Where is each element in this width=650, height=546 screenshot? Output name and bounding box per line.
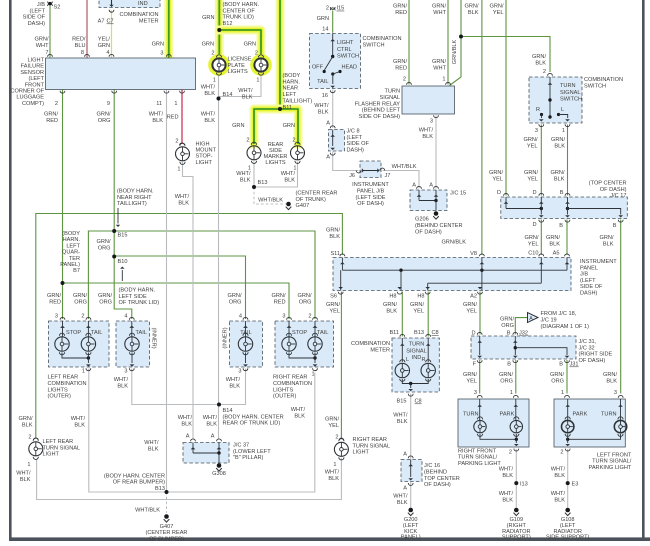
svg-text:YEL: YEL bbox=[492, 176, 503, 182]
wire GRN/ORG from triangle A to J/C 31 pin B bbox=[515, 318, 527, 335]
svg-text:(DIAGRAM 1 OF 1): (DIAGRAM 1 OF 1) bbox=[541, 324, 590, 330]
svg-text:GRN: GRN bbox=[244, 42, 256, 48]
svg-text:YEL: YEL bbox=[493, 10, 504, 16]
svg-text:A: A bbox=[429, 183, 433, 189]
svg-text:PANEL): PANEL) bbox=[60, 262, 80, 268]
svg-text:BLK: BLK bbox=[74, 422, 85, 428]
svg-text:YEL: YEL bbox=[329, 308, 340, 314]
combination meter IND box at top bbox=[99, 0, 160, 8]
svg-text:BLU: BLU bbox=[75, 43, 86, 49]
wire GRN highlighted to license plate lights via B12 bbox=[215, 0, 224, 56]
svg-text:BLK: BLK bbox=[22, 422, 33, 428]
svg-text:GRN/: GRN/ bbox=[432, 4, 446, 10]
svg-text:GRN/: GRN/ bbox=[524, 170, 538, 176]
svg-text:TOP CENTER: TOP CENTER bbox=[424, 476, 460, 482]
svg-text:ORG: ORG bbox=[501, 323, 514, 329]
svg-text:YEL: YEL bbox=[527, 143, 538, 149]
svg-text:E3: E3 bbox=[572, 481, 579, 487]
svg-text:1: 1 bbox=[333, 462, 336, 468]
svg-text:TER: TER bbox=[69, 256, 80, 262]
svg-text:IND: IND bbox=[412, 355, 422, 361]
svg-text:FAILURE: FAILURE bbox=[21, 64, 45, 70]
junction B12 bbox=[217, 28, 221, 32]
svg-text:WHT/: WHT/ bbox=[144, 440, 159, 446]
svg-text:LUGGAGE: LUGGAGE bbox=[16, 95, 44, 101]
svg-text:GRN/: GRN/ bbox=[603, 372, 617, 378]
svg-text:WHT: WHT bbox=[433, 65, 446, 71]
svg-text:WHT/: WHT/ bbox=[114, 377, 129, 383]
svg-text:BLK: BLK bbox=[554, 143, 565, 149]
svg-text:B14: B14 bbox=[223, 408, 233, 414]
svg-text:2: 2 bbox=[175, 139, 178, 145]
svg-text:A: A bbox=[326, 121, 330, 127]
svg-text:NEAR RIGHT: NEAR RIGHT bbox=[117, 195, 152, 201]
svg-text:3: 3 bbox=[282, 314, 285, 320]
wire GRN/BLK V8 to A2 through instrument panel J/B bbox=[481, 0, 483, 255]
svg-text:TURN SIGNAL: TURN SIGNAL bbox=[353, 443, 391, 449]
svg-text:METER: METER bbox=[370, 348, 390, 354]
svg-text:HARN.: HARN. bbox=[283, 79, 301, 85]
svg-text:ORG: ORG bbox=[74, 299, 87, 305]
svg-text:WHT/: WHT/ bbox=[201, 112, 216, 118]
svg-text:OF TRUNK): OF TRUNK) bbox=[296, 197, 326, 203]
svg-text:B15: B15 bbox=[118, 233, 128, 239]
svg-text:RIGHT REAR: RIGHT REAR bbox=[353, 437, 387, 443]
svg-text:A: A bbox=[529, 316, 533, 322]
svg-text:TAIL: TAIL bbox=[136, 330, 147, 336]
svg-text:(TOP CENTER: (TOP CENTER bbox=[589, 181, 627, 187]
svg-text:WHT: WHT bbox=[433, 10, 446, 16]
svg-text:B11: B11 bbox=[389, 330, 399, 336]
svg-text:YEL: YEL bbox=[466, 308, 477, 314]
svg-text:GRN/: GRN/ bbox=[35, 37, 49, 43]
svg-text:PLATE: PLATE bbox=[228, 63, 246, 69]
svg-text:SIDE SUPPORT): SIDE SUPPORT) bbox=[546, 535, 590, 541]
svg-text:SWITCH: SWITCH bbox=[363, 43, 385, 49]
wire WHT/BLK high mount stop light ground to J/C 37 pin A bbox=[183, 162, 194, 439]
svg-text:GRN: GRN bbox=[283, 123, 295, 129]
svg-text:C8: C8 bbox=[415, 399, 422, 405]
svg-text:J/C 31,: J/C 31, bbox=[579, 339, 597, 345]
wire GRN/YEL H8 to turn signal ind B13 bbox=[427, 292, 429, 337]
svg-text:TURN SIGNAL/: TURN SIGNAL/ bbox=[592, 459, 632, 465]
svg-text:A2: A2 bbox=[470, 294, 477, 300]
svg-text:B13: B13 bbox=[414, 330, 424, 336]
left rear combination lights outer box bbox=[49, 321, 110, 367]
callout BODY HARN LEFT SIDE OF TRUNK LID arrow to B10 bbox=[121, 270, 123, 281]
wire rear side marker grounds bbox=[254, 162, 298, 188]
svg-text:TAIL: TAIL bbox=[317, 79, 328, 85]
bulb TAIL inner right bbox=[238, 337, 252, 351]
svg-text:OF DASH): OF DASH) bbox=[600, 187, 627, 193]
svg-text:B7: B7 bbox=[73, 268, 80, 274]
svg-text:SUPPORT): SUPPORT) bbox=[502, 535, 531, 541]
svg-text:PARKING LIGHT: PARKING LIGHT bbox=[458, 461, 501, 467]
svg-text:RED: RED bbox=[395, 10, 407, 16]
svg-text:PANEL: PANEL bbox=[580, 265, 598, 271]
combination switch box with light ctrl switch bbox=[310, 34, 361, 89]
svg-text:S2: S2 bbox=[54, 5, 61, 11]
svg-text:(BODY HARN.: (BODY HARN. bbox=[223, 2, 260, 8]
svg-text:BLK: BLK bbox=[603, 241, 614, 247]
svg-text:TURN: TURN bbox=[409, 342, 425, 348]
svg-text:STOP: STOP bbox=[292, 330, 307, 336]
svg-text:LEFT REAR: LEFT REAR bbox=[43, 439, 74, 445]
dashed link marker splice to G407 bbox=[254, 187, 286, 204]
svg-text:GRN/: GRN/ bbox=[432, 59, 446, 65]
svg-text:CENTER OF: CENTER OF bbox=[223, 8, 256, 14]
svg-text:SWITCH: SWITCH bbox=[560, 97, 582, 103]
svg-text:A: A bbox=[326, 155, 330, 161]
svg-text:SIDE OF: SIDE OF bbox=[347, 141, 370, 147]
svg-text:BLK: BLK bbox=[606, 378, 617, 384]
svg-text:OF DASH): OF DASH) bbox=[579, 358, 606, 364]
svg-text:LIGHTS: LIGHTS bbox=[228, 69, 248, 75]
svg-text:B13: B13 bbox=[258, 180, 268, 186]
svg-text:1: 1 bbox=[561, 390, 564, 396]
svg-text:BLK: BLK bbox=[204, 91, 215, 97]
svg-text:BLK: BLK bbox=[554, 497, 565, 503]
svg-text:BLK: BLK bbox=[397, 500, 408, 506]
internal wiring left front bbox=[568, 434, 621, 439]
svg-text:OF DASH): OF DASH) bbox=[357, 201, 384, 207]
svg-text:B: B bbox=[613, 223, 617, 229]
junction box J/C 31 J/C 32 bbox=[471, 336, 576, 359]
svg-text:YEL: YEL bbox=[527, 176, 538, 182]
svg-text:LEFT: LEFT bbox=[283, 92, 297, 98]
wire WHT/BLK left outer combination pin 1 to ground bus bbox=[89, 369, 315, 493]
svg-text:B12: B12 bbox=[223, 21, 233, 27]
svg-text:G407: G407 bbox=[160, 524, 174, 530]
junction box J/C 15 bbox=[410, 190, 447, 211]
svg-text:H8: H8 bbox=[389, 294, 396, 300]
svg-text:RED: RED bbox=[395, 65, 407, 71]
wire GRN/BLK J/C 17 pin B to left front turn pin 3 bbox=[620, 220, 622, 394]
svg-text:B: B bbox=[507, 362, 511, 368]
svg-text:2: 2 bbox=[292, 138, 295, 144]
svg-text:2: 2 bbox=[509, 450, 512, 456]
svg-text:J/C 16: J/C 16 bbox=[424, 463, 440, 469]
wire WHT/BLK license plate lights ground to B14 to J/C 37 pin A bbox=[218, 75, 220, 439]
svg-text:(RIGHT SIDE: (RIGHT SIDE bbox=[579, 352, 613, 358]
svg-text:BLK: BLK bbox=[386, 308, 397, 314]
svg-text:H8: H8 bbox=[417, 294, 424, 300]
svg-text:WHT/: WHT/ bbox=[175, 194, 190, 200]
svg-text:RED: RED bbox=[46, 118, 58, 124]
svg-text:TAILLIGHT): TAILLIGHT) bbox=[117, 201, 147, 207]
svg-text:WHT/: WHT/ bbox=[499, 467, 514, 473]
svg-text:(BODY HARN. CENTER: (BODY HARN. CENTER bbox=[223, 414, 284, 420]
svg-text:ORG: ORG bbox=[229, 299, 242, 305]
svg-text:A: A bbox=[412, 183, 416, 189]
svg-text:WHT/: WHT/ bbox=[236, 171, 251, 177]
svg-text:IND: IND bbox=[138, 1, 148, 7]
svg-text:GRN/: GRN/ bbox=[463, 372, 477, 378]
svg-text:GRN/: GRN/ bbox=[524, 137, 538, 143]
svg-text:OF DASH): OF DASH) bbox=[424, 482, 451, 488]
light ctrl switch contacts bbox=[330, 39, 335, 41]
svg-text:LEFT REAR: LEFT REAR bbox=[48, 375, 79, 381]
svg-text:(LEFT: (LEFT bbox=[580, 278, 596, 284]
svg-text:WHT/: WHT/ bbox=[16, 471, 31, 477]
svg-text:ORG: ORG bbox=[551, 378, 564, 384]
svg-text:MOUNT: MOUNT bbox=[196, 148, 217, 154]
wire B15 branch GRN/ORG to left tail pin 2 and right tail pin 2 bbox=[88, 231, 315, 319]
svg-text:G206: G206 bbox=[415, 217, 429, 223]
svg-text:LICENSE: LICENSE bbox=[228, 57, 252, 63]
inner right tail light box bbox=[230, 321, 263, 367]
svg-text:GRN: GRN bbox=[202, 42, 214, 48]
svg-text:1: 1 bbox=[562, 128, 565, 134]
svg-text:PANEL J/B: PANEL J/B bbox=[357, 188, 385, 194]
wire GRN/YEL J/C 17 to C10 bbox=[540, 220, 542, 256]
svg-text:TURN: TURN bbox=[560, 83, 576, 89]
bulb PARK right front bbox=[510, 420, 522, 432]
svg-text:PARKING LIGHT: PARKING LIGHT bbox=[589, 465, 632, 471]
wire WHT/BLK inner tails ground bus at B14 bbox=[132, 369, 246, 405]
wire GRN highlighted to rear side marker lights via B11 bbox=[276, 0, 285, 109]
svg-text:J31: J31 bbox=[570, 362, 579, 368]
svg-text:LIGHT: LIGHT bbox=[43, 452, 60, 458]
svg-text:1: 1 bbox=[82, 369, 85, 375]
svg-text:ORG: ORG bbox=[98, 245, 111, 251]
svg-text:GRN/: GRN/ bbox=[463, 302, 477, 308]
svg-text:3: 3 bbox=[430, 119, 433, 125]
svg-text:YEL: YEL bbox=[413, 308, 424, 314]
svg-text:STOP: STOP bbox=[66, 330, 81, 336]
svg-text:D: D bbox=[532, 222, 536, 228]
bulb TURN left front bbox=[614, 420, 626, 432]
svg-text:FRONT: FRONT bbox=[25, 82, 45, 88]
svg-text:I15: I15 bbox=[337, 6, 345, 12]
svg-text:GRN/: GRN/ bbox=[98, 293, 112, 299]
svg-text:TURN: TURN bbox=[384, 89, 400, 95]
svg-text:BLK: BLK bbox=[329, 234, 340, 240]
svg-text:FROM J/C 18,: FROM J/C 18, bbox=[541, 311, 577, 317]
svg-text:1: 1 bbox=[213, 78, 216, 84]
internal wiring right front bbox=[480, 434, 516, 439]
svg-text:HARN.: HARN. bbox=[63, 237, 81, 243]
svg-text:GRN/: GRN/ bbox=[546, 235, 560, 241]
svg-text:GRN/: GRN/ bbox=[325, 417, 339, 423]
wire WHT/BLK right front light ground to G109 bbox=[515, 449, 517, 508]
svg-text:3: 3 bbox=[614, 390, 617, 396]
wire WHT/BLK turn signal grounds bus bbox=[37, 458, 342, 500]
svg-text:METER: METER bbox=[139, 19, 159, 25]
svg-text:3: 3 bbox=[238, 369, 241, 375]
svg-text:J/C 15: J/C 15 bbox=[450, 191, 466, 197]
svg-text:INSTRUMENT: INSTRUMENT bbox=[352, 182, 389, 188]
svg-text:GRN/: GRN/ bbox=[228, 293, 242, 299]
svg-text:J/C 19: J/C 19 bbox=[541, 317, 557, 323]
svg-text:3: 3 bbox=[124, 369, 127, 375]
svg-text:GRN/: GRN/ bbox=[97, 239, 111, 245]
junction box instrument panel J/B J6 J7 bbox=[360, 161, 381, 178]
svg-text:WHT/: WHT/ bbox=[203, 415, 218, 421]
svg-text:COMBINATION: COMBINATION bbox=[351, 341, 390, 347]
svg-text:BLK: BLK bbox=[554, 473, 565, 479]
wire B10 branch GRN/ORG to inner-right tail pin 4 bbox=[114, 256, 245, 319]
svg-text:B: B bbox=[560, 190, 564, 196]
wire GRN/RED sensor pin 2 to B7 to left stop pin 3 bbox=[62, 90, 64, 320]
svg-text:GRN/: GRN/ bbox=[465, 4, 479, 10]
svg-text:GRN/: GRN/ bbox=[551, 137, 565, 143]
svg-text:TURN: TURN bbox=[463, 412, 479, 418]
page border right bar bbox=[642, 0, 645, 541]
svg-text:DASH): DASH) bbox=[347, 147, 365, 153]
dashed link B13 to G407 bbox=[166, 492, 168, 513]
svg-text:C10: C10 bbox=[528, 251, 538, 257]
svg-text:BLK: BLK bbox=[152, 118, 163, 124]
svg-text:BLK: BLK bbox=[328, 476, 339, 482]
svg-text:3: 3 bbox=[535, 128, 538, 134]
connector S2 at top bbox=[48, 2, 53, 4]
svg-text:SIDE OF: SIDE OF bbox=[580, 284, 603, 290]
svg-text:GRN/: GRN/ bbox=[393, 59, 407, 65]
svg-text:2: 2 bbox=[560, 450, 563, 456]
svg-text:TAILLIGHT): TAILLIGHT) bbox=[283, 98, 313, 104]
ground G206 bbox=[434, 211, 439, 216]
svg-text:2: 2 bbox=[335, 435, 338, 441]
svg-text:GRN/: GRN/ bbox=[499, 372, 513, 378]
svg-text:G308: G308 bbox=[212, 471, 226, 477]
svg-text:GRN: GRN bbox=[98, 43, 110, 49]
junction B13 marker splice bbox=[252, 185, 256, 189]
wire GRN/WHT to flasher relay pin 1 bbox=[447, 0, 449, 85]
wire GRN/RED to flasher relay pin 2 bbox=[408, 0, 410, 85]
svg-text:PARK: PARK bbox=[500, 412, 515, 418]
svg-text:TURN SIGNAL: TURN SIGNAL bbox=[43, 445, 81, 451]
svg-text:LIGHTS: LIGHTS bbox=[48, 387, 68, 393]
svg-text:R: R bbox=[536, 107, 540, 113]
svg-text:A: A bbox=[403, 486, 407, 492]
svg-text:(LEFT: (LEFT bbox=[347, 135, 363, 141]
svg-text:CORNER OF: CORNER OF bbox=[10, 89, 44, 95]
junction B10 bbox=[112, 255, 116, 259]
wire GRN/ORG J/C 31 pin B to left front park pin 1 bbox=[566, 360, 568, 394]
svg-text:(OUTER): (OUTER) bbox=[273, 394, 296, 400]
svg-text:2: 2 bbox=[246, 138, 249, 144]
rear side marker bulb left bbox=[247, 146, 261, 160]
svg-text:J6: J6 bbox=[349, 173, 355, 179]
svg-text:RED: RED bbox=[49, 299, 61, 305]
svg-text:BLK: BLK bbox=[549, 241, 560, 247]
wire GRN/YEL S6 to right rear turn signal light bbox=[340, 292, 342, 440]
bulb L turn signal ind bbox=[395, 363, 409, 377]
instrument panel J/B internal wiring bbox=[341, 258, 343, 271]
connector I15 bbox=[330, 7, 335, 9]
svg-text:B13: B13 bbox=[155, 486, 165, 492]
svg-text:G407: G407 bbox=[296, 203, 310, 209]
wire WHT/BLK comb switch pin 16 to J/C 8 bbox=[332, 90, 334, 129]
svg-text:WHT/: WHT/ bbox=[238, 88, 253, 94]
svg-text:A: A bbox=[211, 434, 215, 440]
svg-text:GRN: GRN bbox=[317, 16, 329, 22]
svg-text:SENSOR: SENSOR bbox=[20, 70, 44, 76]
wire WHT/BLK J/C 16 to G200 bbox=[410, 482, 412, 509]
svg-text:GRN: GRN bbox=[202, 15, 214, 21]
junction B14 bbox=[217, 403, 221, 407]
svg-text:1: 1 bbox=[174, 101, 177, 107]
svg-text:4: 4 bbox=[106, 50, 109, 56]
svg-text:BLK: BLK bbox=[148, 446, 159, 452]
svg-text:1: 1 bbox=[510, 390, 513, 396]
svg-text:GRN/: GRN/ bbox=[73, 293, 87, 299]
svg-text:BLK: BLK bbox=[117, 383, 128, 389]
license plate light bulb 1 highlighted bbox=[210, 56, 227, 73]
svg-text:GRN/: GRN/ bbox=[97, 112, 111, 118]
svg-text:BLK: BLK bbox=[468, 10, 479, 16]
svg-text:L: L bbox=[561, 107, 564, 113]
ground G108 bbox=[565, 508, 570, 513]
svg-text:GRN/: GRN/ bbox=[272, 293, 286, 299]
svg-text:B10: B10 bbox=[118, 259, 128, 265]
svg-text:4: 4 bbox=[239, 314, 242, 320]
svg-text:BLK: BLK bbox=[422, 134, 433, 140]
instrument panel J/B box bbox=[333, 258, 571, 291]
left front turn signal parking light box bbox=[554, 399, 625, 447]
wire WHT/BLK turn signal ind B15 to J/C 16 bbox=[410, 394, 412, 460]
svg-text:2: 2 bbox=[81, 314, 84, 320]
svg-text:I13: I13 bbox=[520, 481, 528, 487]
wire YEL/GRN combination meter A7/C7 to sensor pin 4 bbox=[111, 11, 113, 58]
svg-text:2: 2 bbox=[326, 6, 329, 12]
svg-text:DASH): DASH) bbox=[580, 291, 598, 297]
svg-text:YEL: YEL bbox=[328, 423, 339, 429]
svg-text:ORG: ORG bbox=[98, 118, 111, 124]
svg-text:3: 3 bbox=[55, 314, 58, 320]
svg-text:WHT/BLK: WHT/BLK bbox=[135, 508, 160, 514]
svg-text:BLK: BLK bbox=[397, 419, 408, 425]
svg-text:GRN: GRN bbox=[152, 42, 164, 48]
svg-text:B: B bbox=[559, 223, 563, 229]
svg-text:WHT/: WHT/ bbox=[325, 470, 340, 476]
svg-text:COMBINATION: COMBINATION bbox=[119, 12, 158, 18]
svg-text:(BODY HARN.: (BODY HARN. bbox=[119, 288, 156, 294]
svg-text:2: 2 bbox=[55, 101, 58, 107]
svg-text:BLK: BLK bbox=[554, 176, 565, 182]
svg-text:SIDE OF: SIDE OF bbox=[23, 15, 46, 21]
wire GRN/BLK H8 to turn signal ind B11 bbox=[401, 292, 403, 337]
svg-text:GRN/: GRN/ bbox=[298, 293, 312, 299]
svg-text:BLK: BLK bbox=[229, 383, 240, 389]
svg-text:WHT/: WHT/ bbox=[314, 103, 329, 109]
ground G308 bbox=[217, 463, 222, 468]
svg-text:2: 2 bbox=[543, 69, 546, 75]
junction box J/C 16 bbox=[401, 460, 422, 482]
svg-text:RED: RED bbox=[274, 299, 286, 305]
svg-text:YEL: YEL bbox=[466, 378, 477, 384]
svg-text:COMBINATION: COMBINATION bbox=[363, 36, 402, 42]
svg-text:OF TRUNK LID): OF TRUNK LID) bbox=[119, 300, 160, 306]
svg-text:LEFT FRONT: LEFT FRONT bbox=[597, 453, 632, 459]
junction B15 bbox=[112, 229, 116, 233]
svg-text:(OUTER): (OUTER) bbox=[48, 394, 71, 400]
svg-text:BLK: BLK bbox=[294, 413, 305, 419]
svg-text:WHT/BLK: WHT/BLK bbox=[258, 198, 283, 204]
svg-text:GRN/: GRN/ bbox=[600, 235, 614, 241]
svg-text:9: 9 bbox=[107, 101, 110, 107]
svg-text:J/C 32: J/C 32 bbox=[579, 345, 595, 351]
svg-text:GRN/: GRN/ bbox=[326, 228, 340, 234]
junction box J/C 37 bbox=[183, 443, 229, 464]
wire GRN/BLK to relay pin 1 and turn signal switch pin 2 bbox=[450, 0, 462, 86]
svg-text:TRUNK LID): TRUNK LID) bbox=[223, 15, 255, 21]
wire GRN/WHT from J/B S2 to sensor pin 7 bbox=[49, 4, 51, 58]
svg-text:SWITCH: SWITCH bbox=[584, 84, 606, 90]
svg-text:LEFT: LEFT bbox=[66, 243, 80, 249]
svg-text:GRN/: GRN/ bbox=[383, 302, 397, 308]
